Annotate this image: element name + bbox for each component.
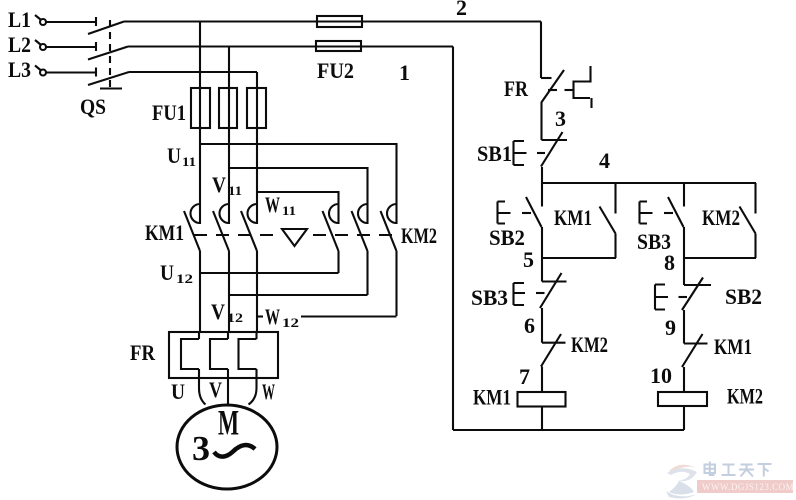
contactor KM1 main contact 3 blade xyxy=(241,211,257,251)
button SB1 blade xyxy=(541,132,563,167)
linkage dashed KM1-KM2 left xyxy=(194,234,276,236)
button SB2 NC blade xyxy=(682,278,703,311)
button SB1 actuator xyxy=(514,141,527,165)
wire W12 crossover xyxy=(301,315,397,317)
wire motor lead V xyxy=(227,378,229,404)
button SB3 NC actuator xyxy=(514,283,526,305)
fuse FU2 upper xyxy=(317,16,362,27)
svg-text:SB1: SB1 xyxy=(477,141,512,166)
svg-text:7: 7 xyxy=(519,364,530,389)
svg-text:KM1: KM1 xyxy=(145,220,184,245)
coil KM2 xyxy=(658,392,707,406)
svg-text:W: W xyxy=(265,192,280,217)
relay FR blade tick xyxy=(548,89,557,91)
svg-text:L2: L2 xyxy=(8,32,31,57)
contactor KM2 main contact 2 arc xyxy=(358,204,368,223)
button SB3 NC blade xyxy=(540,273,562,308)
button SB3 NC link dash xyxy=(536,292,545,294)
svg-text:SB3: SB3 xyxy=(471,285,508,310)
wire L1 bus to control xyxy=(124,20,541,22)
wire motor lead W xyxy=(249,378,257,405)
contact KM1 NC crossbar xyxy=(684,342,708,344)
wire SB1 to rail4 xyxy=(541,167,543,183)
svg-text:FR: FR xyxy=(130,340,156,365)
svg-text:U: U xyxy=(171,379,185,404)
wire node 5 bar xyxy=(542,257,616,259)
button SB1 link dash xyxy=(537,152,545,154)
fuse FU1 phase B xyxy=(219,88,237,128)
svg-text:KM1: KM1 xyxy=(473,385,511,410)
linkage triangle xyxy=(282,229,307,246)
svg-text:8: 8 xyxy=(664,250,675,275)
contactor KM2 main contact 2 blade xyxy=(352,211,368,251)
wire KM2 aux to node8 xyxy=(754,234,756,259)
svg-text:3: 3 xyxy=(192,429,210,468)
relay FR NC crossbar xyxy=(541,77,552,79)
contactor KM2 main contact 3 arc xyxy=(387,204,397,223)
watermark logo xyxy=(666,465,697,499)
wire KM1 aux to node5 xyxy=(614,234,616,259)
wire to KM2 coil xyxy=(683,367,685,392)
switch QS pole 1 fixed tick xyxy=(95,17,97,26)
wire phase B drop xyxy=(228,47,230,225)
svg-text:2: 2 xyxy=(456,0,467,20)
switch QS pole 3 blade xyxy=(88,72,129,85)
wire phase B below KM1 xyxy=(228,251,230,332)
svg-text:KM1: KM1 xyxy=(554,205,592,230)
button SB2 NO link dash xyxy=(522,212,531,214)
wire 2 drop to FR xyxy=(540,22,542,79)
svg-text:SB2: SB2 xyxy=(489,225,525,250)
svg-text:SB2: SB2 xyxy=(725,284,762,309)
contactor KM2 main contact 1 blade xyxy=(323,211,339,251)
node L1 terminal xyxy=(40,19,46,25)
svg-text:FU1: FU1 xyxy=(152,100,186,125)
svg-text:WWW.DGJS123.COM: WWW.DGJS123.COM xyxy=(702,482,794,492)
motor M circle xyxy=(177,405,277,489)
node L2 terminal xyxy=(40,44,46,50)
contact KM1 aux top terminal xyxy=(614,183,616,214)
button SB3 NO blade xyxy=(668,197,684,227)
wire SB2 to node5 xyxy=(541,227,543,258)
wire L3 incoming xyxy=(46,71,96,73)
button SB2 NO top terminal xyxy=(541,183,543,207)
wire W11 crossover xyxy=(257,192,339,224)
wire FR to SB1 xyxy=(540,103,542,140)
wire V11 crossover xyxy=(229,168,368,224)
svg-text:5: 5 xyxy=(523,247,534,272)
svg-text:4: 4 xyxy=(599,148,610,173)
wire KM1 coil bottom xyxy=(541,407,543,431)
button SB2 NC crossbar xyxy=(684,284,711,286)
wire SB3 to node8 xyxy=(683,227,685,258)
switch QS pole 1 blade xyxy=(88,22,124,35)
fuse FU2 lower xyxy=(316,41,361,51)
wire node8 down xyxy=(683,258,685,285)
wire FR element2 stubs xyxy=(227,332,229,378)
motor wave symbol xyxy=(214,445,255,457)
thermal relay FR element 2 xyxy=(210,339,228,369)
svg-text:V: V xyxy=(209,377,222,402)
wire 1 left rail xyxy=(452,47,454,431)
switch QS pole 2 fixed tick xyxy=(95,42,97,51)
svg-text:U: U xyxy=(160,260,174,285)
contact KM2 NC blade xyxy=(541,334,561,367)
svg-text:M: M xyxy=(218,403,239,443)
svg-text:KM2: KM2 xyxy=(571,332,608,357)
svg-text:3: 3 xyxy=(555,106,566,131)
svg-text:FU2: FU2 xyxy=(317,58,354,83)
contact KM2 aux top terminal xyxy=(754,183,756,214)
wire node5 down xyxy=(541,258,543,282)
wire phase C drop xyxy=(256,72,258,224)
svg-text:9: 9 xyxy=(665,315,676,340)
wire node9 segment xyxy=(683,310,685,344)
wire U11 crossover xyxy=(200,144,397,224)
switch QS pole 2 blade xyxy=(88,47,128,60)
relay FR NC contact blade xyxy=(541,70,564,103)
contactor KM2 main contact 1 arc xyxy=(329,204,339,223)
contactor KM2 main contact 3 blade xyxy=(381,211,397,251)
svg-text:KM1: KM1 xyxy=(714,334,752,359)
relay FR link dash xyxy=(565,89,573,91)
svg-text:L1: L1 xyxy=(8,7,31,32)
svg-text:11: 11 xyxy=(182,154,196,169)
wire KM2 contact2 bottom xyxy=(366,251,368,295)
relay FR thermal actuator xyxy=(574,66,592,108)
contactor KM1 main contact 2 blade xyxy=(213,211,229,251)
wire KM2 contact1 bottom xyxy=(337,251,339,273)
svg-text:W: W xyxy=(262,379,275,404)
svg-text:12: 12 xyxy=(176,271,193,286)
button SB2 NO blade xyxy=(526,197,542,227)
wire L3 bus xyxy=(129,71,257,73)
button SB3 NO link dash xyxy=(664,212,673,214)
svg-text:6: 6 xyxy=(524,313,535,338)
wire motor lead U xyxy=(199,378,206,405)
wire FR element3 stubs xyxy=(255,332,257,378)
svg-text:11: 11 xyxy=(282,203,296,218)
fuse FU1 phase C xyxy=(247,88,266,128)
wire node6 segment xyxy=(541,308,543,343)
wire node 8 bar xyxy=(684,257,756,259)
button SB2 NC actuator xyxy=(655,285,668,310)
wire KM2 coil bottom xyxy=(683,406,685,430)
contactor KM1 main contact 1 arc xyxy=(191,204,201,223)
contact KM1 NC blade xyxy=(682,334,703,367)
fuse FU1 phase A xyxy=(191,88,210,128)
linkage dashed KM1-KM2 right xyxy=(313,234,392,236)
switch QS linkage dashed xyxy=(109,20,111,88)
wire bottom rail xyxy=(453,429,684,431)
switch QS linkage bar xyxy=(100,87,122,89)
svg-text:KM2: KM2 xyxy=(702,205,740,230)
svg-text:FR: FR xyxy=(504,76,529,101)
node L3 terminal xyxy=(40,70,46,76)
contactor KM1 main contact 1 blade xyxy=(184,211,200,251)
svg-text:W: W xyxy=(265,304,280,329)
svg-text:10: 10 xyxy=(650,363,672,388)
switch QS pole 3 fixed tick xyxy=(95,68,97,77)
svg-text:QS: QS xyxy=(80,94,106,119)
wire FR element1 stubs xyxy=(198,332,200,378)
svg-text:L3: L3 xyxy=(8,57,31,82)
wire L1 incoming xyxy=(46,21,96,23)
wire phase A below KM1 xyxy=(199,251,201,332)
contact KM2 aux blade xyxy=(740,207,756,234)
button SB3 NC crossbar xyxy=(542,280,567,282)
coil KM1 xyxy=(518,392,566,407)
button SB1 crossbar xyxy=(542,139,568,141)
button SB3 NO top terminal xyxy=(683,183,685,207)
contactor KM1 main contact 3 arc xyxy=(248,204,258,223)
svg-text:12: 12 xyxy=(282,315,299,330)
svg-text:1: 1 xyxy=(399,60,410,85)
svg-text:U: U xyxy=(167,143,181,168)
button SB2 NO actuator xyxy=(498,202,511,224)
svg-text:KM2: KM2 xyxy=(727,384,763,409)
svg-text:11: 11 xyxy=(228,183,242,198)
contactor KM1 main contact 2 arc xyxy=(220,204,230,223)
button SB2 NC link dash xyxy=(679,296,688,298)
wire L2 bus xyxy=(128,45,453,47)
wire rail node 4 xyxy=(542,182,756,184)
wire KM2 contact3 bottom xyxy=(395,251,397,316)
svg-text:KM2: KM2 xyxy=(401,223,437,248)
wire U12 crossover xyxy=(200,272,339,274)
watermark text 电工天下 drawn as strokes xyxy=(705,462,772,477)
thermal relay FR element 1 xyxy=(181,339,199,369)
contact KM1 aux blade xyxy=(600,207,616,234)
svg-text:V: V xyxy=(212,172,226,197)
svg-text:12: 12 xyxy=(227,310,243,325)
wire phase C below KM1 xyxy=(256,251,258,332)
contact KM2 NC crossbar xyxy=(542,342,566,344)
button SB3 NO actuator xyxy=(640,202,653,224)
wire to KM1 coil xyxy=(541,367,543,393)
svg-text:V: V xyxy=(211,299,225,324)
wire L2 incoming xyxy=(46,46,96,48)
watermark red bar xyxy=(697,480,793,493)
wire phase A drop xyxy=(199,22,201,225)
thermal relay FR element 3 xyxy=(239,339,257,369)
wire V12 crossover xyxy=(229,294,368,296)
thermal relay FR box xyxy=(169,332,278,378)
wire W12 crossover dash xyxy=(257,315,263,317)
